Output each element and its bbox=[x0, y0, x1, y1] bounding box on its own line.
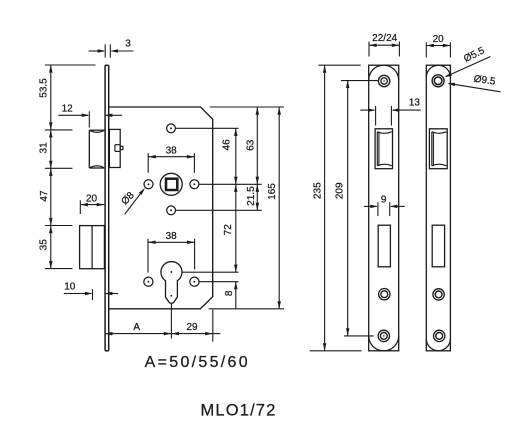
svg-text:8: 8 bbox=[224, 290, 235, 296]
svg-text:13: 13 bbox=[409, 97, 421, 108]
faceplate bottom round end bbox=[369, 336, 399, 351]
faceplate top screw hole bbox=[378, 75, 389, 86]
dimension 3 faceplate thickness bbox=[89, 39, 134, 58]
svg-text:3: 3 bbox=[125, 39, 131, 50]
faceplate top round end bbox=[369, 65, 399, 80]
faceplate deadbolt cutout bbox=[378, 225, 390, 267]
extension line cylinder screw holes bbox=[199, 281, 238, 283]
follower right hole bbox=[190, 180, 199, 189]
svg-text:9: 9 bbox=[381, 195, 387, 206]
latch bolt side view bbox=[89, 130, 104, 168]
strike bottom screw hole bbox=[434, 330, 445, 341]
dimension 9 deadbolt cutout bbox=[364, 195, 405, 216]
svg-text:63: 63 bbox=[246, 139, 257, 151]
dimension 38 cylinder holes bbox=[148, 231, 195, 272]
svg-text:235: 235 bbox=[312, 182, 323, 199]
svg-text:35: 35 bbox=[39, 239, 50, 251]
strike plate outline bbox=[426, 65, 450, 351]
svg-text:53.5: 53.5 bbox=[38, 78, 49, 98]
faceplate middle screw hole bbox=[379, 289, 390, 300]
dimension 35 bbox=[39, 226, 53, 269]
dimension 22/24 faceplate width bbox=[369, 33, 399, 56]
extension line plate bottom bbox=[310, 350, 362, 352]
svg-text:31: 31 bbox=[38, 142, 49, 154]
dimension 165 bbox=[267, 107, 281, 309]
svg-text:38: 38 bbox=[166, 146, 178, 157]
svg-text:A=50/55/60: A=50/55/60 bbox=[145, 354, 250, 371]
label diameter 5.5 with leader bbox=[444, 45, 490, 77]
strike deadbolt cutout bbox=[432, 225, 444, 267]
svg-text:22/24: 22/24 bbox=[372, 33, 397, 44]
svg-text:38: 38 bbox=[166, 231, 178, 242]
lock case body outline bbox=[109, 107, 212, 309]
dimension 10 deadbolt projection bbox=[64, 281, 118, 300]
extension line lower hole bbox=[176, 209, 262, 211]
deadbolt side view bbox=[80, 226, 105, 269]
faceplate side view bbox=[105, 65, 109, 351]
extension line bottom screw centre bbox=[344, 335, 374, 337]
strike middle screw hole bbox=[433, 289, 444, 300]
extension line case bottom bbox=[209, 308, 284, 310]
dimension 38 follower holes bbox=[148, 146, 194, 173]
strike plate bottom round end bbox=[426, 339, 450, 351]
left chain extension lines bbox=[45, 65, 96, 269]
dimension 29 bbox=[171, 322, 220, 335]
dimension 21.5 bbox=[246, 184, 259, 210]
latch housing inside case bbox=[109, 129, 123, 167]
extension line keyhole centre down bbox=[170, 303, 172, 339]
svg-text:165: 165 bbox=[267, 183, 278, 200]
faceplate bottom screw hole bbox=[378, 330, 389, 341]
extension line cylinder centre bbox=[182, 271, 239, 273]
svg-text:20: 20 bbox=[433, 34, 445, 45]
svg-text:47: 47 bbox=[39, 190, 50, 202]
svg-text:10: 10 bbox=[64, 281, 76, 292]
dimension 20 strike width bbox=[426, 34, 450, 57]
svg-text:72: 72 bbox=[223, 224, 234, 236]
dimension 209 bbox=[335, 80, 350, 336]
dimension 8 bbox=[224, 282, 238, 309]
dimension 63 bbox=[246, 107, 259, 184]
euro cylinder keyhole bbox=[161, 262, 182, 304]
extension line top screw centre bbox=[341, 80, 378, 82]
faceplate latch cutout with latch bolt bbox=[375, 129, 392, 169]
dimension 20 deadbolt throw bbox=[80, 194, 104, 214]
follower left hole bbox=[144, 180, 153, 189]
dimension 53.5 bbox=[38, 65, 52, 130]
lower fixing hole bbox=[167, 206, 176, 215]
extension line follower centre bbox=[199, 183, 262, 185]
svg-text:20: 20 bbox=[86, 194, 98, 205]
follower square spindle hub bbox=[160, 173, 182, 195]
dimension 31 bbox=[38, 130, 52, 168]
dimension 72 bbox=[223, 184, 238, 272]
strike top screw hole bbox=[432, 75, 444, 87]
svg-text:MLO1/72: MLO1/72 bbox=[201, 401, 277, 419]
svg-text:A: A bbox=[133, 322, 140, 333]
strike plate top round end bbox=[426, 65, 450, 77]
extension line plate top bbox=[318, 64, 360, 66]
cylinder right screw hole bbox=[190, 277, 199, 286]
faceplate front view outline bbox=[369, 65, 399, 351]
extension line case right down bbox=[212, 310, 214, 342]
svg-text:46: 46 bbox=[221, 139, 232, 151]
svg-text:12: 12 bbox=[62, 104, 74, 115]
dimension 235 bbox=[312, 65, 326, 351]
dimension 47 bbox=[39, 168, 53, 225]
dimension A backset bbox=[105, 322, 171, 335]
strike latch cutout with latch bolt bbox=[429, 129, 447, 169]
dimension 13 latch cutout bbox=[360, 97, 420, 125]
svg-text:29: 29 bbox=[186, 322, 198, 333]
dimension 46 bbox=[221, 128, 237, 184]
extension line upper hole bbox=[176, 127, 239, 129]
label diameter 8 with leader bbox=[120, 188, 145, 214]
svg-text:209: 209 bbox=[335, 182, 346, 199]
cylinder left screw hole bbox=[144, 277, 153, 286]
dimension 12 latch projection bbox=[58, 104, 122, 128]
extension line case top bbox=[210, 106, 284, 108]
upper fixing hole bbox=[167, 124, 176, 133]
svg-text:21.5: 21.5 bbox=[246, 186, 257, 206]
label diameter 9.5 with leader bbox=[447, 74, 500, 92]
